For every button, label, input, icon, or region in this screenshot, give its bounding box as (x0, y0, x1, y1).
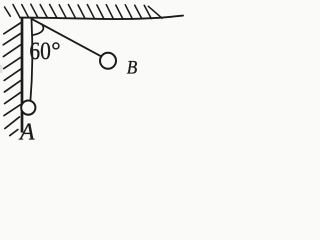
wall line (21, 18, 24, 133)
svg-text:°: ° (51, 38, 60, 64)
svg-text:B: B (127, 58, 138, 78)
angle arc (60 deg) (33, 24, 44, 35)
ceiling hatching (5, 4, 163, 19)
wall hatching (3, 23, 20, 136)
svg-text:60: 60 (29, 36, 51, 65)
ceiling line (20, 16, 183, 19)
faint scan smudge left edge (0, 65, 3, 73)
string to ball A (vertical) (30, 19, 32, 101)
svg-text:A: A (18, 120, 35, 146)
ball A (21, 101, 35, 115)
string to ball B (slanted, 60 deg from wall) (32, 19, 101, 56)
ball B (100, 53, 116, 69)
